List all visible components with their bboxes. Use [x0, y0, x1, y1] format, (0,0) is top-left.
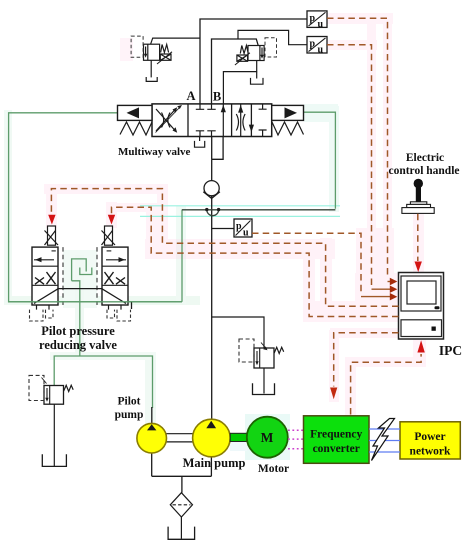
valve section 2 blocked ports [196, 104, 224, 137]
wire pilot pump suction stub [151, 407, 153, 424]
P/u sensor 1 [307, 11, 327, 28]
dashed side line of left reducing valve [62, 247, 64, 305]
frequency converter box [304, 416, 370, 464]
main relief valve [254, 343, 284, 369]
pilot relief valve [42, 378, 74, 405]
dashed pilot box of main relief valve [239, 339, 254, 362]
dashed tanks under left reducing valve [30, 310, 54, 321]
wire branch to main relief valve [212, 317, 264, 348]
dashed pilot box of pilot relief valve [29, 375, 44, 400]
svg-text:Frequency: Frequency [310, 429, 362, 441]
right pilot triangle [285, 107, 298, 118]
wire branch to P/u sensor 3 [212, 228, 234, 230]
tank under port relief valve A [146, 77, 157, 81]
shaft pump to motor [230, 433, 247, 441]
drain tick right of reducing valve [131, 302, 133, 309]
signal wire P/u 1 to IPC [327, 18, 388, 277]
multiway valve left spring [120, 122, 152, 135]
svg-text:B: B [213, 90, 221, 104]
red arrow onto left reducing valve [48, 215, 55, 225]
dashed tanks under right reducing valve [107, 310, 131, 321]
wire drain line y=209.8 with hop [182, 210, 335, 216]
pilot pump [137, 423, 167, 453]
svg-text:Electric: Electric [406, 152, 444, 164]
wire green pilot supply to pump [54, 356, 152, 408]
junction dots on drain line [205, 208, 208, 211]
signal wire frequency converter to IPC [351, 354, 422, 415]
P/u sensor 3 [234, 219, 252, 237]
red arrow up into IPC [417, 340, 424, 352]
check valve [203, 181, 220, 199]
solenoid of left reducing valve [45, 226, 59, 245]
P/u sensor 2 [307, 37, 327, 54]
tank under pilot relief valve [42, 454, 66, 466]
wire stub to tank under port relief valve B [256, 72, 258, 79]
wire port relief valve B to P/u sensor 2 [238, 30, 307, 44]
wire between reducing valves [58, 288, 102, 290]
main pump [193, 419, 231, 457]
signal wire P/u 3 to IPC [252, 233, 361, 292]
tank under main relief valve [253, 383, 275, 394]
svg-text:M: M [261, 430, 274, 445]
svg-text:IPC: IPC [439, 343, 462, 358]
wire green pilot line across reducing valves [9, 301, 182, 303]
IPC computer [399, 273, 444, 340]
port relief valve A (top-left) [144, 44, 173, 64]
svg-text:pump: pump [115, 409, 144, 421]
multiway valve left pilot box [118, 105, 153, 120]
svg-text:Pilot pressure: Pilot pressure [41, 324, 115, 338]
svg-text:A: A [186, 89, 195, 103]
multiway valve right pilot box [272, 105, 304, 120]
svg-text:Motor: Motor [258, 463, 289, 475]
power network box [400, 422, 460, 459]
valve section 3 throttle with arrows [236, 104, 245, 137]
svg-text:u: u [318, 44, 324, 55]
multiway valve right spring [272, 122, 304, 135]
svg-text:p: p [310, 13, 316, 24]
wire green staircase between reducing valves [72, 259, 92, 356]
electric control handle [414, 179, 423, 188]
wire pilot relief drain [53, 404, 55, 466]
multiway valve body [152, 104, 272, 137]
wire filter to tank [180, 517, 182, 539]
svg-text:Pilot: Pilot [118, 396, 141, 408]
tank under port relief valve B [251, 78, 264, 84]
svg-text:Multiway valve: Multiway valve [118, 146, 191, 158]
svg-text:control handle: control handle [388, 165, 459, 177]
left pilot triangle [127, 107, 140, 118]
valve section 4 blocked ports [259, 104, 267, 137]
signal wire P/u 2 to IPC [327, 45, 372, 285]
svg-text:Main pump: Main pump [183, 456, 246, 470]
solenoid of right reducing valve [102, 226, 116, 245]
svg-text:p: p [310, 39, 316, 50]
signal wire IPC to frequency converter [334, 333, 399, 387]
wire tap from port relief valve A to A-line [151, 38, 201, 44]
svg-text:p: p [236, 221, 242, 232]
port relief valve B (top-right) [235, 46, 264, 66]
wire main relief drain [263, 368, 265, 394]
filter [170, 493, 192, 517]
stubs from reducing valve bodies to tanks [37, 305, 122, 310]
valve section 1 crossed throttle arrows [156, 107, 181, 133]
dashed pilot box of port relief valve B [265, 38, 277, 57]
blue power lines [369, 429, 400, 452]
wire tank stub below multiway valve [199, 137, 201, 142]
dotted electric lines motor to frequency converter [288, 430, 304, 449]
red arrow handle into IPC [415, 262, 422, 273]
wire pump suction lines [152, 453, 212, 493]
wire drain of port relief valve B to valve [223, 61, 256, 104]
pilot pressure reducing valve left body [32, 247, 58, 305]
dashed side line of right reducing valve [96, 247, 98, 305]
signal wire handle to IPC [417, 214, 419, 261]
svg-text:u: u [318, 19, 324, 30]
red arrows into IPC left [390, 278, 398, 285]
wire A-line to P/u sensor 1 [200, 19, 307, 104]
dashed pilot box of port relief valve A [131, 36, 143, 57]
svg-text:converter: converter [313, 443, 360, 455]
motor M [247, 417, 288, 458]
wire pump interconnect double line [167, 434, 193, 442]
svg-text:reducing valve: reducing valve [39, 338, 117, 352]
pilot pressure reducing valve right body [102, 247, 128, 305]
wire B-line [212, 39, 259, 104]
lightning bolt [372, 419, 395, 461]
svg-text:u: u [243, 228, 249, 239]
svg-text:network: network [410, 446, 451, 458]
wire main pressure line pump to valve [211, 159, 213, 419]
wire pilot drain vertical [181, 210, 183, 302]
svg-text:Power: Power [414, 431, 445, 443]
wire drain of valve A to tank [150, 60, 152, 77]
wire P-channel below multiway valve [212, 137, 223, 160]
signal wire IPC to right reducing valve [112, 207, 399, 316]
signal wire IPC to left reducing valve [51, 189, 398, 307]
red arrow into frequency converter [330, 388, 337, 400]
red arrow onto right reducing valve [108, 215, 115, 225]
wire pilot green right loop [304, 112, 336, 209]
suction tank [168, 527, 195, 540]
wire pilot green left loop [9, 113, 182, 302]
tank below multiway valve [195, 141, 205, 147]
